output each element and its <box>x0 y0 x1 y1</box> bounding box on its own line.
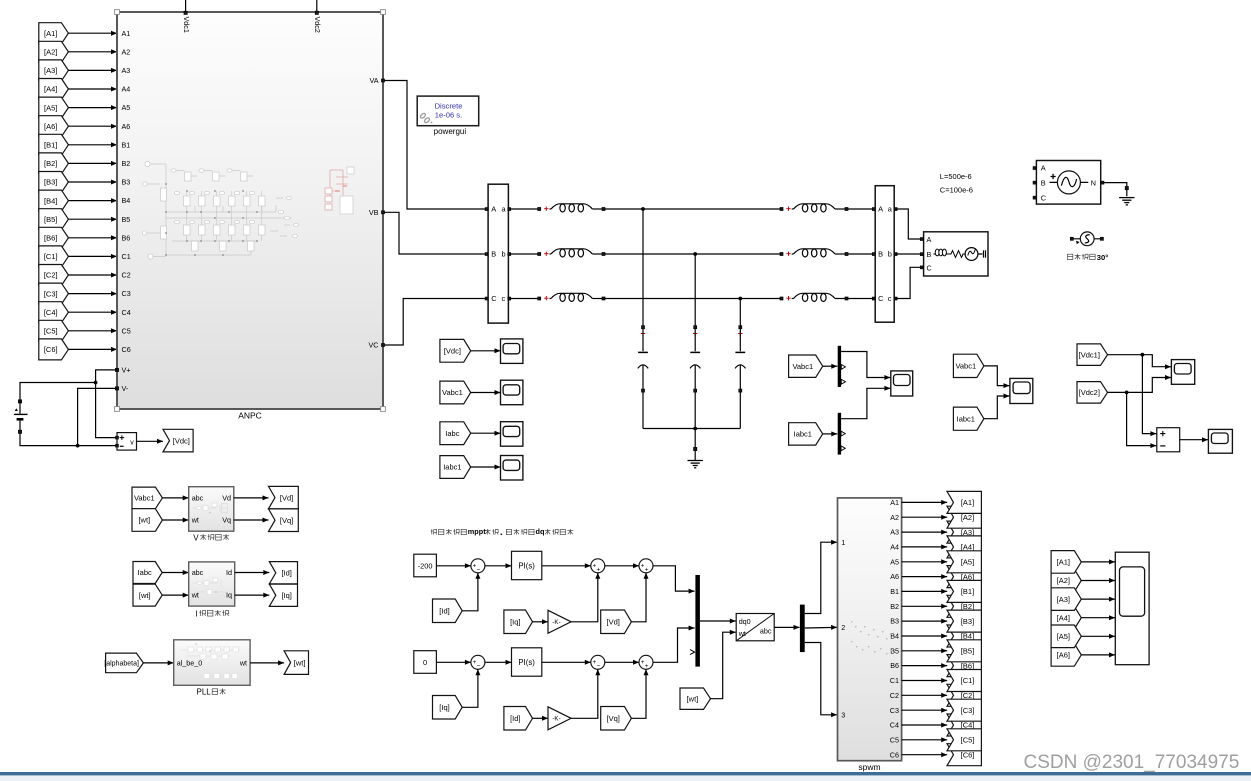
svg-text:abc: abc <box>760 627 772 636</box>
svg-text:wt: wt <box>738 629 746 638</box>
svg-text:−: − <box>477 566 481 573</box>
svg-text:C1: C1 <box>890 676 899 685</box>
svg-text:[C5]: [C5] <box>961 736 975 745</box>
wire sum to scope4 <box>1180 437 1208 442</box>
subsystem PLL锁相 <box>174 640 250 686</box>
svg-text:A6: A6 <box>122 122 131 131</box>
wire to junction and inductor 2 <box>605 252 782 256</box>
svg-text:C: C <box>1041 193 1047 202</box>
goto tag [A5] <box>947 551 981 573</box>
from tag [B3] <box>39 172 69 193</box>
wire spwm B4 out <box>902 634 948 639</box>
svg-text:[A3]: [A3] <box>1057 595 1070 604</box>
wire spwm A1 out <box>902 500 948 505</box>
wire VC to measurement C <box>382 299 487 347</box>
label C=100e-6 <box>940 186 973 195</box>
from tag [C3] <box>39 283 69 304</box>
three-phase series RLC load <box>920 232 988 276</box>
svg-text:[A2]: [A2] <box>1057 576 1070 585</box>
wire ff to sum3 <box>631 573 648 622</box>
gain -K- <box>548 707 571 730</box>
wire gain to sum2 <box>571 573 600 622</box>
svg-text:−: − <box>477 663 481 670</box>
label L=500e-6 <box>940 172 972 181</box>
svg-text:[C6]: [C6] <box>961 750 975 759</box>
label PLL锁相 <box>197 688 226 697</box>
bottom scrollbar <box>0 772 1251 781</box>
from tag [A2] <box>39 41 69 62</box>
goto tag [C4] <box>947 714 981 736</box>
wire feedback to sum1 <box>462 669 480 707</box>
sum junction 3 <box>639 655 653 670</box>
wire [C2] to ANPC <box>68 273 117 278</box>
svg-text:A4: A4 <box>890 543 899 552</box>
svg-text:A1: A1 <box>122 29 131 38</box>
subsystem ANPC <box>117 12 383 421</box>
scope for [Vdc] <box>501 339 523 364</box>
svg-text:A4: A4 <box>122 85 131 94</box>
wire gain to sum2 <box>571 669 600 718</box>
wire spwm B5 out <box>902 648 948 653</box>
wire [B3] to ANPC <box>68 180 117 185</box>
three-phase programmable voltage source <box>1033 161 1104 205</box>
from tag [wt] (I transform) <box>133 584 162 606</box>
svg-text:[Vd]: [Vd] <box>280 493 293 502</box>
from tag [A1] (final scope) <box>1051 551 1081 574</box>
svg-text:[A6]: [A6] <box>44 122 57 131</box>
from tag [A6] <box>39 116 69 137</box>
from tag [A3] (final scope) <box>1051 588 1081 611</box>
svg-text:[Iq]: [Iq] <box>439 703 449 712</box>
wire Vabc1 to scope <box>471 390 501 395</box>
wire a to load A <box>896 209 922 239</box>
svg-text:+: + <box>645 663 649 670</box>
wire wt to dq0 block <box>711 630 736 699</box>
svg-text:[wt]: [wt] <box>294 658 306 667</box>
wire Vabc1 to demux <box>823 364 838 369</box>
wire PI to sum2 <box>542 660 591 665</box>
sum junction 2 <box>591 559 605 574</box>
series RLC branch L2 <box>780 204 848 212</box>
ground (filter neutral) <box>688 451 703 468</box>
from tag Vabc1 (V transform) <box>132 487 162 509</box>
svg-text:-K-: -K- <box>552 619 560 626</box>
wire alphabeta to PLL <box>143 660 173 665</box>
svg-text:[wt]: [wt] <box>139 591 151 600</box>
sum junction 2 <box>591 655 605 670</box>
goto tag [A4] <box>947 536 981 558</box>
svg-text:B2: B2 <box>122 159 131 168</box>
svg-text:[B3]: [B3] <box>44 178 57 187</box>
from tag [C4] <box>39 302 69 323</box>
mux (dq0 assembly) <box>690 575 700 667</box>
svg-text:A6: A6 <box>890 572 899 581</box>
wire Vabc1 to scope2 <box>984 366 1010 388</box>
svg-text:Iabc1: Iabc1 <box>794 430 812 439</box>
wire sum to PI <box>485 660 512 665</box>
wire to gain <box>533 716 549 721</box>
wire spwm C1 out <box>902 678 948 683</box>
series RLC branch C (filter capacitor) <box>690 326 700 392</box>
goto tag [A6] <box>947 566 981 588</box>
wire [A1] to big scope <box>1081 559 1115 564</box>
powergui block <box>417 96 480 136</box>
demux Iabc1 <box>838 413 846 455</box>
annotation 电流值根据mppt决定，正负根据dq变换得到 <box>431 527 573 536</box>
CSDN watermark <box>1024 752 1240 773</box>
svg-text:wt: wt <box>239 659 247 668</box>
from tag [C5] <box>39 320 69 341</box>
from tag [Id] decouple <box>504 707 533 731</box>
phase angle source block <box>1070 232 1103 246</box>
svg-text:1: 1 <box>841 538 845 547</box>
ANPC icon (faint inner circuit) <box>142 161 354 259</box>
svg-text:[C1]: [C1] <box>961 676 975 685</box>
wire to junction and inductor 2 <box>605 297 782 301</box>
from tag [Vdc] <box>440 339 471 362</box>
wire spwm A4 out <box>902 544 948 549</box>
svg-text:C4: C4 <box>122 308 131 317</box>
wire spwm A5 out <box>902 559 948 564</box>
sum junction 1 <box>471 655 485 670</box>
svg-text:[B1]: [B1] <box>44 141 57 150</box>
wire demux to spwm 1 <box>805 540 837 614</box>
DC voltage source battery <box>14 400 28 434</box>
wire [B5] to ANPC <box>68 217 117 222</box>
svg-text:[C3]: [C3] <box>44 289 58 298</box>
ground (source neutral) <box>1119 198 1134 205</box>
svg-text:C: C <box>878 294 884 303</box>
svg-text:[A1]: [A1] <box>44 29 57 38</box>
wire mux to dq0 block <box>700 619 736 624</box>
demux (abc split) <box>800 605 805 653</box>
wire voltmeter to [Vdc] <box>137 439 164 444</box>
svg-text:PI(s): PI(s) <box>518 658 535 667</box>
wire Iabc1 to scope2 <box>984 394 1010 419</box>
wire PLL wt out <box>250 660 284 665</box>
svg-text:abc: abc <box>192 494 204 503</box>
svg-text:A: A <box>927 235 932 244</box>
sum junction 3 <box>639 559 653 574</box>
wire [C5] to ANPC <box>68 328 117 333</box>
svg-text:[B4]: [B4] <box>44 196 57 205</box>
svg-text:A: A <box>491 205 496 214</box>
svg-text:Id: Id <box>226 568 232 577</box>
svg-text:dq0: dq0 <box>739 617 751 626</box>
goto tag [wt] (PLL) <box>284 651 308 675</box>
wire [A4] to ANPC <box>68 87 117 92</box>
svg-text:V-: V- <box>122 384 129 393</box>
svg-text:C: C <box>927 263 932 272</box>
three-phase VI measurement 1 <box>485 184 510 323</box>
dq0 to abc transform block <box>736 614 774 641</box>
from tag Iabc (I transform) <box>133 562 162 584</box>
svg-text:C: C <box>491 294 497 303</box>
svg-text:c: c <box>888 294 892 303</box>
from tag [A6] (final scope) <box>1051 644 1081 667</box>
subtract block Vdc1-Vdc2 <box>1157 428 1180 452</box>
svg-text:dq: dq <box>536 527 545 536</box>
wire VA to measurement A <box>382 79 487 209</box>
wire battery- to V- and voltmeter- <box>20 388 117 447</box>
svg-text:A2: A2 <box>122 47 131 56</box>
wire demux to spwm 3 <box>805 643 837 718</box>
demux Vabc1 <box>838 346 846 387</box>
wire [B4] to ANPC <box>68 198 117 203</box>
wire junction down to capacitor <box>642 209 644 326</box>
wire source N to ground <box>1104 183 1128 197</box>
svg-text:[wt]: [wt] <box>138 516 150 525</box>
svg-text:Vdc2: Vdc2 <box>313 17 322 33</box>
from tag [B1] <box>39 134 69 155</box>
svg-text:I: I <box>195 609 197 618</box>
svg-text:A5: A5 <box>122 103 131 112</box>
from tag [B6] <box>39 227 69 248</box>
svg-text:[A5]: [A5] <box>44 103 57 112</box>
goto tag [A2] <box>947 506 981 528</box>
wire feedback to sum1 <box>462 573 480 611</box>
from tag [A3] <box>39 60 69 81</box>
wire [A5] to big scope <box>1081 634 1115 639</box>
wire spwm A2 out <box>902 515 948 520</box>
from tag [B5] <box>39 209 69 230</box>
wire c to load C <box>896 267 922 298</box>
svg-text:Iabc1: Iabc1 <box>443 463 461 472</box>
svg-text:abc: abc <box>192 568 204 577</box>
wire [B2] to ANPC <box>68 161 117 166</box>
svg-text:B4: B4 <box>890 632 899 641</box>
from tag [Vq] feedforward <box>601 707 632 731</box>
series RLC branch L2 <box>780 293 848 301</box>
wire spwm B6 out <box>902 663 948 668</box>
svg-text:A3: A3 <box>122 66 131 75</box>
svg-text:al_be_0: al_be_0 <box>177 659 203 668</box>
wire b to load B <box>896 253 922 255</box>
svg-text:[A3]: [A3] <box>44 66 57 75</box>
gain -K- <box>548 610 571 633</box>
wire Iabc1 to demux <box>823 431 838 436</box>
series RLC branch C (filter capacitor) <box>638 326 648 392</box>
goto tag [C1] <box>947 670 981 692</box>
from tag [A4] <box>39 79 69 100</box>
svg-text:ANPC: ANPC <box>238 411 262 421</box>
wire [A2] to big scope <box>1081 578 1115 583</box>
from tag [wt] (dq0) <box>680 688 711 709</box>
from tag [B2] <box>39 153 69 174</box>
wire spwm B3 out <box>902 619 948 624</box>
scope for Vabc1 <box>501 380 523 405</box>
scope for Iabc <box>501 422 523 447</box>
svg-text:B5: B5 <box>122 215 131 224</box>
svg-text:C4: C4 <box>890 721 899 730</box>
scope Vdc1 Vdc2 <box>1171 360 1194 385</box>
svg-text:B: B <box>878 250 883 259</box>
svg-text:[B1]: [B1] <box>961 587 974 596</box>
wire [A6] to ANPC <box>68 124 117 129</box>
wire [A2] to ANPC <box>68 49 117 54</box>
from tag [Iq] feedback <box>433 696 463 720</box>
svg-text:Vabc1: Vabc1 <box>134 494 155 503</box>
goto tag [A1] <box>947 491 981 513</box>
svg-text:A: A <box>1041 164 1046 173</box>
svg-text:Iabc1: Iabc1 <box>957 414 975 423</box>
series RLC branch L (filter inductor) <box>538 204 605 212</box>
svg-text:[C1]: [C1] <box>44 252 58 261</box>
from tag [B4] <box>39 190 69 211</box>
wire sum2 to sum3 <box>605 660 639 665</box>
svg-text:B: B <box>1041 178 1046 187</box>
svg-text:0: 0 <box>423 658 427 667</box>
svg-text:PI(s): PI(s) <box>518 562 535 571</box>
svg-text:[A5]: [A5] <box>1057 632 1070 641</box>
PI controller <box>512 551 542 579</box>
svg-text:[B5]: [B5] <box>961 647 974 656</box>
svg-text:C5: C5 <box>122 326 131 335</box>
wire Vdc1 to sum+ <box>1142 355 1156 436</box>
svg-text:PLL: PLL <box>197 688 212 697</box>
svg-text:B3: B3 <box>890 617 899 626</box>
svg-text:1e-06 s.: 1e-06 s. <box>435 111 462 120</box>
from tag [A2] (final scope) <box>1051 569 1081 592</box>
svg-text:A1: A1 <box>890 498 899 507</box>
wire Vq out <box>234 518 269 523</box>
scope (demux group) <box>891 371 913 396</box>
svg-text:Discrete: Discrete <box>435 101 463 110</box>
svg-text:Vd: Vd <box>222 494 231 503</box>
wire measurement1 out <box>509 298 539 300</box>
svg-text:[C4]: [C4] <box>44 308 58 317</box>
wire inductor2 to measurement2 <box>848 298 874 300</box>
svg-text:[B3]: [B3] <box>961 617 974 626</box>
svg-text:B1: B1 <box>122 140 131 149</box>
wire ff to sum3 <box>631 669 648 718</box>
wire const to sum <box>436 563 471 568</box>
svg-text:[A2]: [A2] <box>44 48 57 57</box>
svg-text:[A2]: [A2] <box>961 513 974 522</box>
svg-text:A5: A5 <box>890 557 899 566</box>
svg-text:Vdc1: Vdc1 <box>182 17 191 33</box>
svg-text:[Iq]: [Iq] <box>510 618 520 627</box>
subsystem V坐标变换 <box>189 487 234 532</box>
wire demuxV to scope in1 <box>841 352 890 381</box>
wire demux to spwm 2 <box>805 625 837 630</box>
from tag [C6] <box>39 339 69 360</box>
svg-text:mppt: mppt <box>468 527 486 536</box>
svg-text:2: 2 <box>841 623 845 632</box>
svg-text:[A6]: [A6] <box>1057 651 1070 660</box>
wire inductor2 to measurement2 <box>848 253 874 255</box>
from tag [alphabeta] <box>104 653 143 673</box>
svg-text:wt: wt <box>191 516 199 525</box>
goto tag [B4] <box>947 625 981 647</box>
series RLC branch L (filter inductor) <box>538 293 605 301</box>
svg-text:[C6]: [C6] <box>44 345 58 354</box>
wire [C6] to ANPC <box>68 347 117 352</box>
svg-text:B2: B2 <box>890 602 899 611</box>
svg-text:C5: C5 <box>890 735 899 744</box>
svg-text:B4: B4 <box>122 196 131 205</box>
wire junction down to capacitor <box>694 254 696 326</box>
wire Iabc1 to scope <box>471 465 501 470</box>
wire sum to PI <box>485 563 512 568</box>
subsystem spwm <box>838 498 902 772</box>
from tag [C1] <box>39 246 69 267</box>
svg-text:[A1]: [A1] <box>961 498 974 507</box>
label I坐标变换 <box>195 609 228 618</box>
from tag Iabc1 <box>440 456 471 479</box>
svg-text:B1: B1 <box>890 587 899 596</box>
ANPC selection handles <box>115 10 386 412</box>
from tag Vabc1 (direct) <box>953 354 984 377</box>
svg-text:V: V <box>193 533 199 542</box>
sum junction 1 <box>471 559 485 574</box>
goto tag [Id] <box>269 562 297 584</box>
goto tag [B2] <box>947 595 981 617</box>
svg-text:Vq: Vq <box>222 516 231 525</box>
svg-text:C6: C6 <box>122 345 131 354</box>
wire Id out <box>235 570 270 575</box>
subsystem I坐标变换 <box>189 562 235 606</box>
wire [C3] to ANPC <box>68 291 117 296</box>
svg-text:Iq: Iq <box>226 591 232 600</box>
svg-text:+: + <box>645 566 649 573</box>
goto tag [C5] <box>947 729 981 751</box>
goto tag [Vq] <box>269 509 299 532</box>
wire [B6] to ANPC <box>68 235 117 240</box>
svg-text:A3: A3 <box>890 528 899 537</box>
svg-text:Vabc1: Vabc1 <box>442 388 463 397</box>
svg-text:v: v <box>130 440 134 447</box>
wire spwm A6 out <box>902 574 948 579</box>
label V坐标变换 <box>193 533 229 542</box>
wire Vdc1 to scope3 <box>1108 353 1172 369</box>
svg-text:Vabc1: Vabc1 <box>792 362 813 371</box>
voltage measurement Vdc <box>116 433 137 451</box>
wire [Vdc] to scope <box>471 348 501 353</box>
goto tag [B3] <box>947 610 981 632</box>
series RLC branch L2 <box>780 249 848 257</box>
wire spwm C5 out <box>902 737 948 742</box>
svg-text:C1: C1 <box>122 252 131 261</box>
wire spwm C3 out <box>902 708 948 713</box>
svg-text:[Iq]: [Iq] <box>281 591 291 600</box>
wire Vdc2 to scope3 <box>1108 375 1172 394</box>
from tag [Id] feedback <box>433 599 463 623</box>
wire [A5] to ANPC <box>68 105 117 110</box>
PI controller <box>512 648 542 676</box>
wire capacitor to neutral bus <box>642 392 644 429</box>
constant -200 <box>414 554 437 577</box>
neutral bus wire <box>643 427 740 431</box>
svg-text:+: + <box>597 566 601 573</box>
svg-text:VC: VC <box>369 341 379 350</box>
wire spwm C2 out <box>902 693 948 698</box>
svg-text:30°: 30° <box>1097 253 1108 262</box>
svg-text:[Id]: [Id] <box>439 607 449 616</box>
wire inductor2 to measurement2 <box>848 208 874 210</box>
series RLC branch C (filter capacitor) <box>735 326 745 392</box>
svg-text:Iabc: Iabc <box>138 568 152 577</box>
goto tag [Iq] <box>269 584 297 606</box>
wire [C1] to ANPC <box>68 254 117 259</box>
wire capacitor to neutral bus <box>694 392 696 429</box>
series RLC branch L (filter inductor) <box>538 249 605 257</box>
svg-text:-K-: -K- <box>552 716 560 723</box>
svg-text:C3: C3 <box>890 706 899 715</box>
wire [A4] to big scope <box>1081 615 1115 620</box>
svg-text:B6: B6 <box>890 661 899 670</box>
svg-text:V+: V+ <box>122 366 131 375</box>
